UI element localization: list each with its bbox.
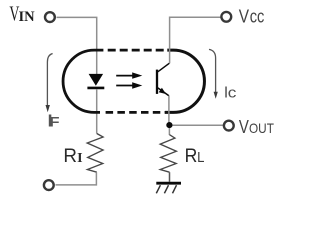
svg-text:IN: IN bbox=[19, 9, 36, 25]
phototransistor Q1 bbox=[157, 63, 169, 95]
terminal input low bbox=[44, 180, 54, 190]
wire LED cathode to R1 bbox=[96, 89, 98, 133]
svg-text:V: V bbox=[239, 117, 249, 137]
light arrow lower bbox=[116, 82, 142, 88]
optocoupler body right cap bbox=[165, 50, 204, 112]
optocoupler body dashed bottom bbox=[106, 111, 166, 114]
svg-text:R: R bbox=[185, 145, 198, 167]
wire RL to ground bbox=[169, 172, 171, 182]
svg-text:F: F bbox=[49, 114, 59, 129]
wire junction to RL bbox=[168, 128, 170, 135]
svg-text:I: I bbox=[77, 151, 82, 166]
junction node bbox=[166, 122, 172, 128]
terminal Vcc bbox=[221, 12, 231, 22]
wire emitter to junction bbox=[168, 96, 170, 125]
label RL bbox=[185, 145, 205, 167]
wire VIN terminal to LED anode bbox=[57, 17, 97, 74]
optocoupler body left cap bbox=[63, 50, 103, 112]
label VOUT bbox=[239, 117, 274, 137]
label IF bbox=[48, 111, 60, 131]
label Ic bbox=[224, 85, 237, 102]
label Vcc bbox=[239, 6, 264, 27]
LED D1 bbox=[87, 74, 104, 88]
label VIN bbox=[9, 4, 35, 26]
resistor R1 bbox=[87, 134, 103, 173]
terminal VOUT bbox=[224, 121, 234, 131]
ground bbox=[156, 183, 181, 193]
IF current arrow bbox=[46, 54, 53, 113]
wire collector to Vcc terminal bbox=[170, 17, 221, 63]
resistor RL bbox=[160, 135, 176, 173]
wire R1 bottom to left terminal bbox=[56, 172, 97, 185]
svg-text:OUT: OUT bbox=[249, 120, 274, 136]
svg-text:R: R bbox=[63, 146, 77, 167]
IC current arrow bbox=[209, 49, 218, 98]
svg-text:c: c bbox=[228, 86, 237, 102]
light arrow upper bbox=[116, 72, 142, 78]
optocoupler body dashed top bbox=[108, 49, 168, 52]
label R1 bbox=[63, 146, 82, 167]
svg-text:V: V bbox=[239, 6, 250, 27]
svg-text:cc: cc bbox=[250, 6, 265, 27]
svg-text:L: L bbox=[197, 149, 204, 166]
wire junction to VOUT terminal bbox=[173, 124, 223, 126]
terminal VIN bbox=[45, 12, 55, 22]
